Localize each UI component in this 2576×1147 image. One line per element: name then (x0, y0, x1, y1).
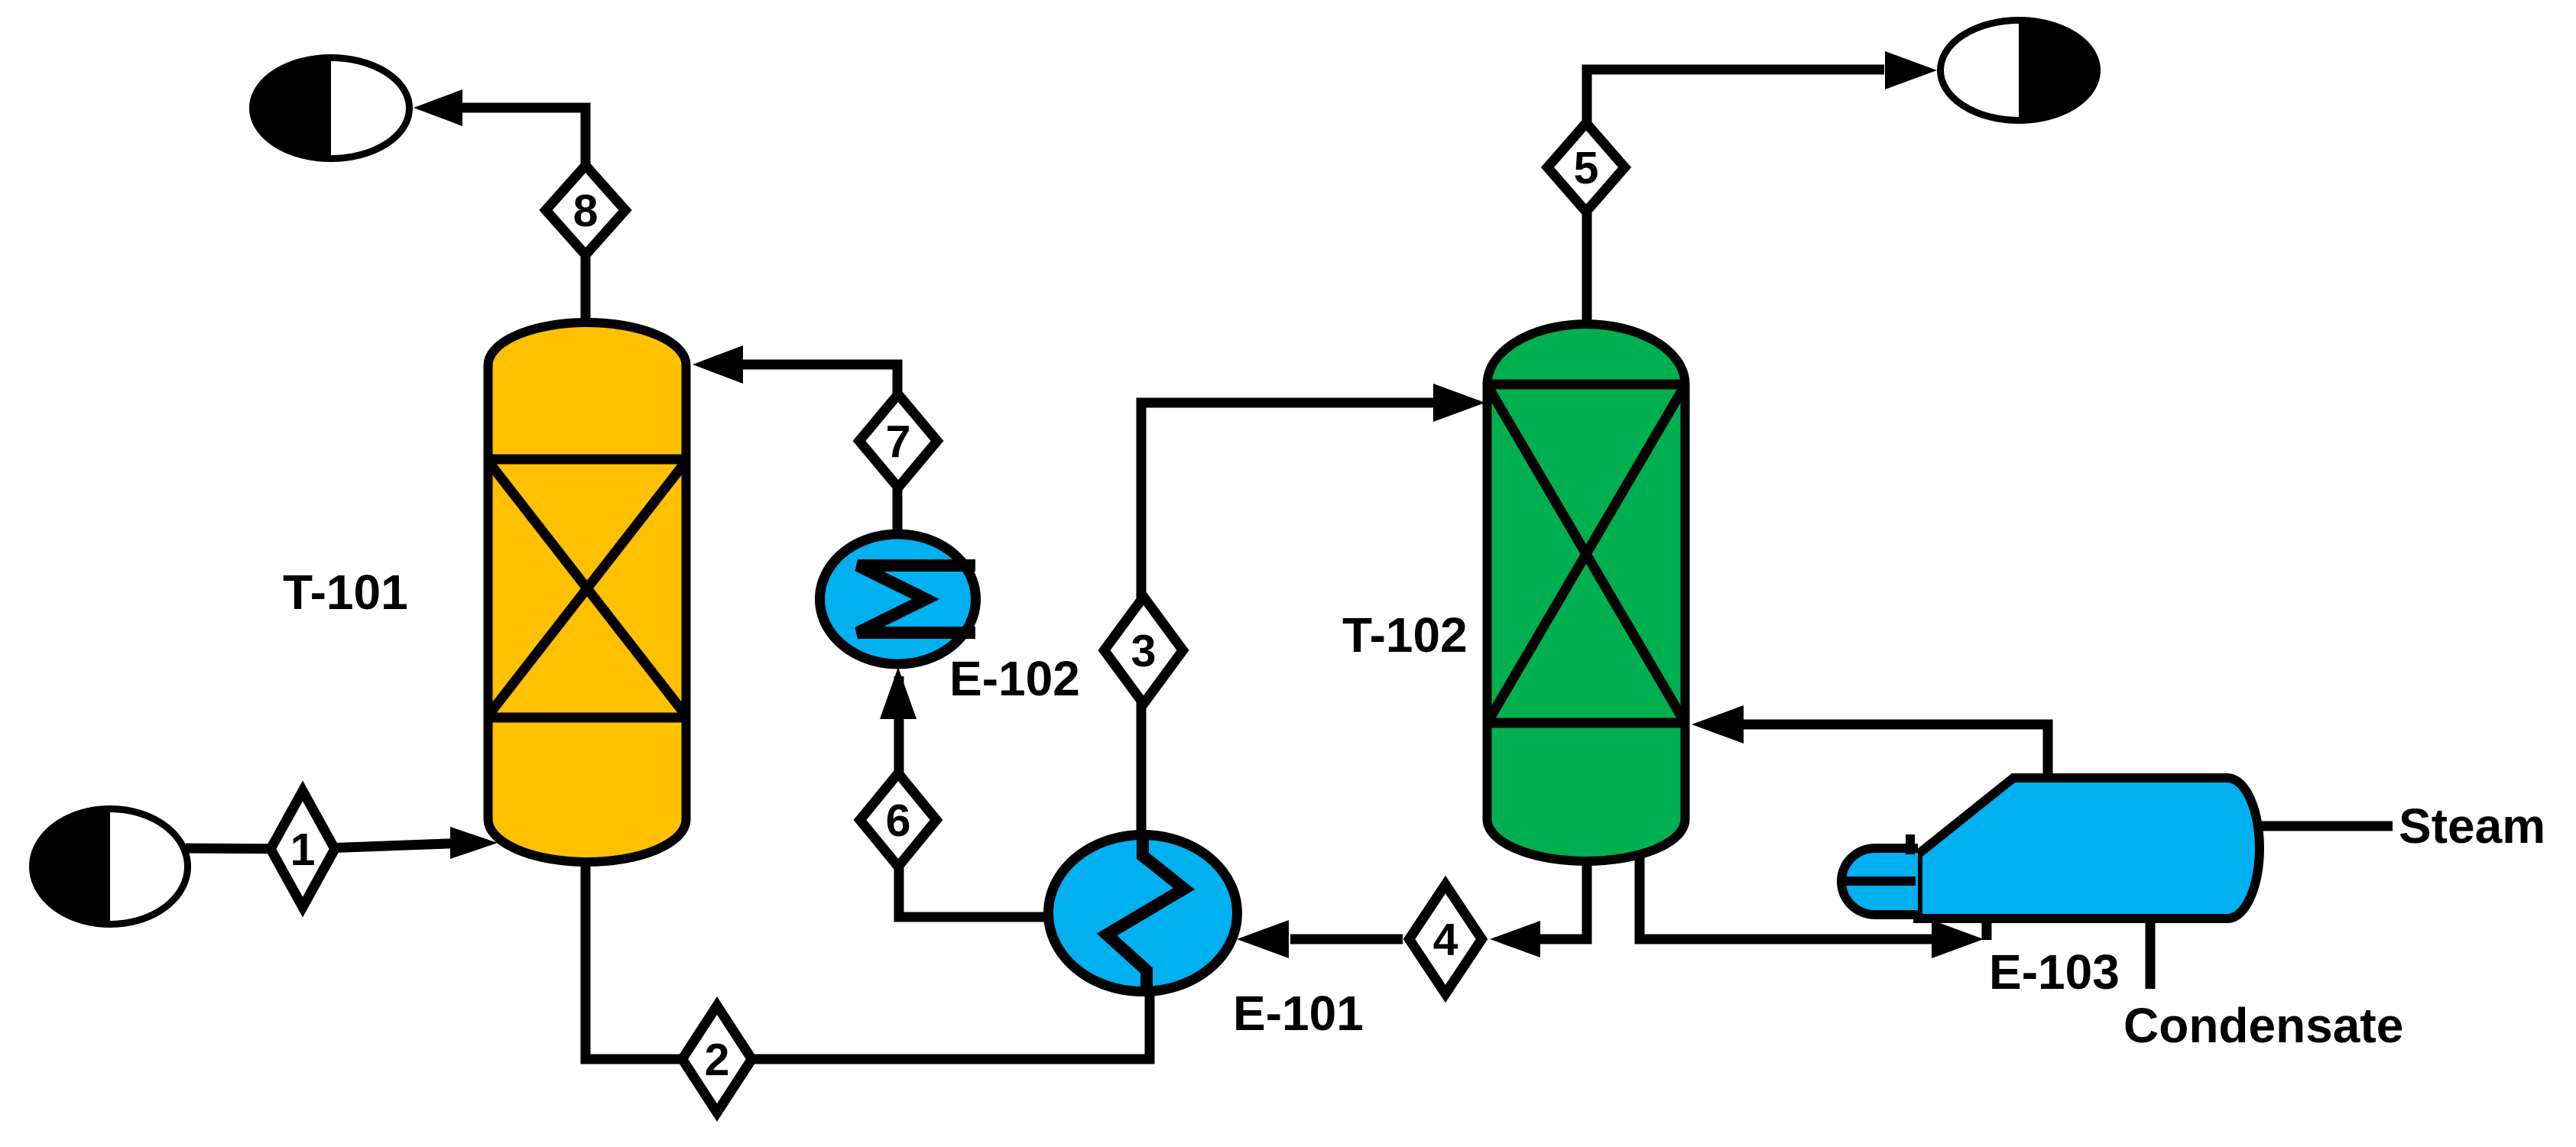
svg-text:3: 3 (1131, 626, 1157, 676)
column T-102 shell (1488, 324, 1685, 861)
E-103 tube nozzle (1841, 848, 1918, 915)
wire E-103 bottom stub (1982, 915, 1992, 940)
wire stream 7: corner to T-101 upper inlet (743, 365, 897, 531)
wire T-102 bottoms to E-103 (1640, 833, 1934, 939)
outlet ellipse stream 8 (left top) (253, 58, 410, 159)
wire stream 8: T-101 top to outlet ellipse (459, 108, 586, 326)
arrowhead stream 7 into T-101 (693, 345, 743, 384)
feed ellipse stream 1 (left bottom) (33, 809, 188, 925)
arrowhead stream 4 into E-101 (1237, 920, 1289, 958)
T-101 packing X diagonal 2 (491, 465, 683, 712)
diamond stream 6 (860, 773, 936, 867)
heat exchanger E-102 body (820, 534, 976, 664)
arrowhead stream 1 into T-101 (450, 827, 498, 859)
outlet ellipse black half (252, 58, 331, 159)
E-102 coil sigma (858, 565, 975, 633)
outlet ellipse black half (2019, 21, 2097, 121)
svg-text:Steam: Steam (2399, 799, 2545, 854)
reboiler E-103 body (1918, 778, 2260, 919)
E-103 nozzle tick (1906, 834, 1915, 854)
arrowhead stream 5 into ellipse (1885, 51, 1937, 89)
feed ellipse black half (33, 809, 110, 925)
wire stream 4 left: T-102 bottoms to diamond 4 (1538, 833, 1587, 939)
svg-text:E-102: E-102 (949, 651, 1080, 706)
T-102 packing X diagonal 2 (1490, 390, 1682, 718)
svg-text:T-101: T-101 (283, 565, 408, 620)
diamond stream 2 (683, 1006, 752, 1113)
arrowhead stream 6 up into E-102 (880, 667, 917, 719)
svg-text:2: 2 (705, 1035, 730, 1085)
diamond stream 3 (1105, 597, 1183, 704)
svg-text:8: 8 (573, 186, 599, 236)
arrowhead stream 8 into ellipse (414, 89, 462, 126)
svg-text:5: 5 (1574, 143, 1599, 193)
svg-text:1: 1 (290, 825, 316, 875)
heat exchanger E-101 body (1049, 835, 1238, 992)
svg-text:Condensate: Condensate (2123, 998, 2403, 1053)
column T-101 shell (488, 322, 686, 862)
arrowhead stream 3 into T-102 (1433, 384, 1485, 422)
svg-text:4: 4 (1433, 915, 1458, 965)
outlet ellipse stream 5 (right top) (1941, 21, 2097, 121)
svg-text:T-102: T-102 (1342, 608, 1468, 663)
wire stream 6: E-102 bottom down to corner then to E-101 left (899, 676, 1049, 917)
T-101 packing X diagonal 1 (491, 465, 683, 712)
T-102 packing top line (1483, 380, 1689, 390)
E-101 coil zigzag (1107, 834, 1184, 993)
E-103 tube centerline (1841, 876, 1916, 886)
T-101 packing bottom line (484, 713, 690, 723)
T-102 packing X diagonal 1 (1490, 390, 1682, 718)
arrowhead into E-103 stub (1932, 920, 1984, 958)
svg-text:E-101: E-101 (1233, 986, 1364, 1041)
T-101 packing top line (484, 455, 690, 465)
diamond stream 7 (859, 394, 937, 488)
wire stream 3: E-101 top up and into T-102 (1141, 403, 1436, 833)
wire stream 4: diamond 4 to E-101 right (1290, 935, 1403, 944)
wire stream 1: feed ellipse to T-101 (186, 843, 469, 849)
diamond stream 4 (1410, 885, 1482, 994)
arrowhead vapor return into T-102 (1692, 705, 1744, 744)
wire steam inlet (2255, 821, 2393, 831)
svg-text:6: 6 (886, 795, 911, 846)
diamond stream 8 (546, 166, 625, 255)
wire stream 5: T-102 top to outlet ellipse (1587, 70, 1884, 321)
diamond stream 5 (1548, 123, 1625, 212)
wire condensate outlet (2146, 851, 2156, 989)
wire E-103 vapor return to T-102 (1743, 724, 2048, 779)
svg-text:7: 7 (886, 416, 911, 467)
diamond stream 1 (271, 791, 335, 907)
T-102 packing bottom line (1483, 718, 1689, 728)
svg-text:E-103: E-103 (1989, 944, 2120, 1000)
arrowhead stream 4 into diamond (1490, 921, 1540, 957)
wire stream 2: T-101 bottom to E-101 bottom (586, 856, 1150, 1059)
